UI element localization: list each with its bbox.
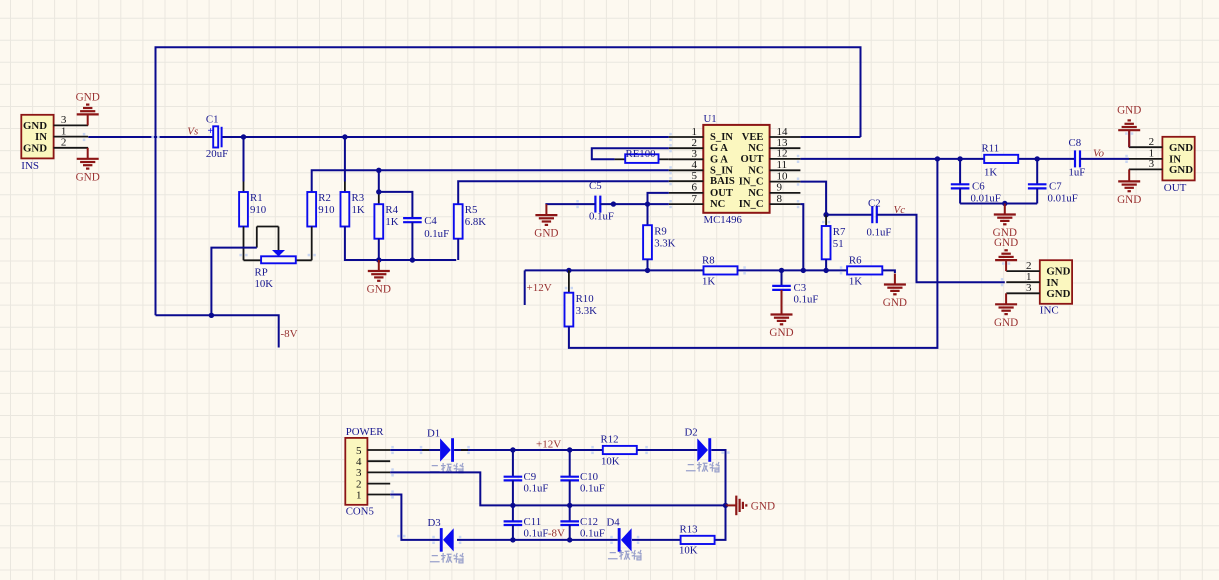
svg-text:OUT: OUT [741,154,764,165]
svg-text:GND: GND [534,228,558,240]
pin 7 NC [669,203,704,205]
wire C2 line [826,214,872,216]
svg-text:1K: 1K [352,204,365,216]
connector INS [21,115,53,159]
resistor R3 [341,192,350,227]
wire +12V bus [525,269,704,271]
label D3 type [430,553,464,563]
ground above INC pin2 [1005,260,1007,271]
pin 12 OUT [770,158,801,160]
junction out-feedback [935,156,940,161]
junction out-C7 [1035,156,1040,161]
svg-text:0.1uF: 0.1uF [867,227,892,239]
resistor R7 [825,215,827,226]
resistor RE100 [625,154,658,163]
svg-text:1: 1 [61,125,67,137]
svg-text:C5: C5 [589,180,602,192]
svg-text:GND: GND [751,501,775,513]
pin 11 NC [770,169,801,171]
svg-text:0.1uF: 0.1uF [589,211,614,223]
junction out-C6 [957,156,962,161]
wire pin8 column [800,204,803,270]
svg-text:GND: GND [1117,194,1141,206]
ground below INS pin2 [87,148,89,159]
svg-text:OUT: OUT [710,188,733,199]
pin 8 IN_C [770,203,801,205]
svg-text:6.8K: 6.8K [465,216,486,228]
svg-text:D4: D4 [607,517,621,529]
connector OUT [1162,137,1194,181]
diode D2 [697,438,708,461]
svg-text:C8: C8 [1069,137,1082,149]
ground at R6 [894,274,896,285]
wire -8V rail [390,495,440,540]
svg-text:1K: 1K [385,216,398,228]
svg-text:GND: GND [1169,164,1193,176]
wire -8V net [156,315,279,347]
svg-text:3: 3 [356,467,362,479]
svg-text:R5: R5 [465,204,478,216]
diode D3 [440,528,443,552]
svg-text:OUT: OUT [1164,182,1187,194]
wire pin10 to C2 [800,182,826,215]
diode D4 [618,528,621,552]
svg-text:7: 7 [692,193,698,205]
wire pin14 stub [800,136,860,138]
wire ground bus R3 R4 C4 R5 [345,227,456,261]
wire R3 branch [344,137,346,182]
resistor R12 [603,446,637,454]
resistor R8 [704,266,738,274]
svg-text:MC1496: MC1496 [704,214,743,226]
label D1 type [430,463,464,473]
power ground symbol [726,504,737,506]
svg-text:GND: GND [1117,105,1141,117]
wire pin6 branch [648,193,669,204]
svg-text:C12: C12 [580,516,598,528]
svg-text:0.1uF: 0.1uF [794,294,819,306]
capacitor C9 [512,450,514,477]
svg-text:S_IN: S_IN [710,165,733,176]
svg-text:C7: C7 [1049,181,1062,193]
capacitor C3 [781,270,783,286]
svg-text:VEE: VEE [742,132,764,143]
svg-text:R7: R7 [833,226,846,238]
wire C5 right to pin7 [600,203,669,205]
svg-text:11: 11 [777,159,788,171]
svg-text:-8V: -8V [548,528,565,540]
svg-text:10K: 10K [255,278,274,290]
svg-text:GND: GND [994,237,1018,249]
junction mid-C9 [510,503,515,508]
ground below resistor bank [378,260,380,271]
junction rail-C10 [567,447,572,452]
wire C4 branch [379,192,413,218]
pin 3 G A [669,158,704,160]
svg-text:C4: C4 [424,215,437,227]
pin 6 OUT [669,192,704,194]
pin 4 S_IN [669,169,704,171]
wire RP network [243,227,245,261]
wire GND mid rail [390,472,725,505]
svg-text:INC: INC [1040,305,1059,317]
svg-text:D2: D2 [685,427,698,439]
svg-text:C9: C9 [524,471,537,483]
svg-text:8: 8 [777,193,783,205]
wire VEE loop (pin14 to -8V node) [156,47,861,315]
pin 10 IN_C [770,181,801,183]
ground above INS pin3 [87,114,89,125]
wire C5 left to ground [546,203,595,206]
svg-text:1K: 1K [702,276,715,288]
junction main-R3 [342,134,347,139]
wire OUT net pin12 [800,158,984,160]
junction rail-R4 [376,168,381,173]
svg-text:GND: GND [367,284,391,296]
resistor R11 [984,155,1018,163]
junction bus-R7 [823,268,828,273]
svg-text:6: 6 [692,182,698,194]
svg-text:C3: C3 [794,282,807,294]
pin 1 CON5 [367,494,390,496]
resistor R6 [847,266,882,274]
resistor R4 [374,204,383,239]
svg-text:1K: 1K [849,276,862,288]
wire gain rail to pin4 [312,170,669,192]
junction bus-R10 [566,268,571,273]
wire R4 branch [378,170,380,193]
svg-text:910: 910 [318,204,334,216]
svg-text:910: 910 [250,204,266,216]
svg-text:0.1uF: 0.1uF [524,528,549,540]
svg-text:-8V: -8V [281,328,298,340]
svg-text:0.01uF: 0.01uF [1048,193,1078,205]
pin 2 G A [669,147,704,149]
resistor R9 [643,225,652,259]
svg-text:9: 9 [777,182,783,194]
wire C8 to OUT connector [1080,158,1129,160]
op-amp U1 MC1496 [703,125,769,213]
svg-text:RE100: RE100 [626,148,656,160]
junction bus-C4 [410,257,415,262]
ground above OUT pin2 [1128,131,1130,147]
resistor R10 [568,270,570,292]
svg-text:INS: INS [21,160,39,172]
pin 9 NC [770,192,801,194]
svg-text:Vo: Vo [1093,148,1105,160]
svg-text:D3: D3 [428,517,441,529]
junction bus-C3 [779,268,784,273]
svg-text:10K: 10K [679,545,698,557]
junction low-C12 [567,537,572,542]
capacitor C2 [871,206,873,223]
svg-text:20uF: 20uF [206,148,228,160]
ground at C5 [545,204,547,215]
svg-text:10K: 10K [601,456,620,468]
resistor R5 [454,204,463,239]
svg-text:1K: 1K [984,167,997,179]
svg-text:3: 3 [61,114,67,126]
svg-text:NC: NC [748,143,763,154]
svg-text:R3: R3 [352,192,365,204]
svg-text:+12V: +12V [536,439,561,451]
label D2 type [686,462,720,472]
junction low-C11 [510,537,515,542]
svg-text:GND: GND [23,142,47,154]
ground below C6 C7 [1004,204,1006,215]
svg-text:CON5: CON5 [346,506,374,518]
resistor R2 [307,192,316,227]
potentiometer RP [261,256,296,263]
pin 3 CON5 [367,471,390,473]
svg-text:R12: R12 [601,434,619,446]
svg-text:0.1uF: 0.1uF [580,528,605,540]
svg-text:51: 51 [833,238,844,250]
junction C5 line b [645,201,650,206]
svg-text:12: 12 [777,148,788,160]
capacitor C4 [403,217,422,219]
svg-text:3: 3 [1026,282,1032,294]
svg-text:1: 1 [356,489,362,501]
svg-text:2: 2 [61,137,67,149]
svg-text:IN_C: IN_C [739,199,764,210]
junction mid-right [723,503,728,508]
svg-text:1: 1 [692,126,698,138]
pin 1 S_IN [669,136,704,138]
junction C1-R1 [241,134,246,139]
pin 2 CON5 [367,483,390,485]
svg-text:GND: GND [76,91,100,103]
svg-text:C10: C10 [580,471,598,483]
svg-text:G A: G A [710,154,728,165]
svg-text:+12V: +12V [527,282,552,294]
svg-text:R6: R6 [849,255,862,267]
capacitor C1 [213,126,218,147]
svg-text:C11: C11 [524,516,542,528]
wire +12V stub [524,270,526,305]
svg-text:GND: GND [769,327,793,339]
junction rail-C9 [510,447,515,452]
ground below INC pin3 [1005,293,1007,304]
svg-text:C2: C2 [868,198,881,210]
svg-text:GND: GND [23,120,47,132]
svg-text:R10: R10 [576,293,594,305]
svg-text:G A: G A [710,143,728,154]
ground below OUT pin3 [1128,169,1130,181]
svg-text:NC: NC [748,188,763,199]
svg-text:RP: RP [255,267,268,279]
svg-text:3.3K: 3.3K [654,238,675,250]
connector CON5 POWER [345,438,367,505]
svg-text:0.1uF: 0.1uF [424,228,449,240]
capacitor C5 [594,196,596,213]
svg-text:R8: R8 [702,255,715,267]
svg-text:14: 14 [777,126,789,138]
wire R5 to pin5 rail [458,181,669,204]
junction C5 line a [611,201,616,206]
svg-text:C6: C6 [972,181,985,193]
diode D1 [440,438,451,461]
svg-text:2: 2 [1149,136,1155,148]
resistor R1 [239,192,248,227]
svg-text:Vs: Vs [187,125,198,137]
svg-text:GND: GND [994,317,1018,329]
capacitor C12 [569,505,571,521]
svg-text:0.1uF: 0.1uF [580,483,605,495]
svg-text:R11: R11 [982,143,1000,155]
junction bus-pin8 [801,268,806,273]
svg-text:5: 5 [356,445,362,457]
pin 13 NC [770,147,801,149]
resistor R13 [681,536,715,544]
svg-text:R9: R9 [654,226,667,238]
svg-text:IN: IN [35,131,47,143]
junction bus-R9 [645,268,650,273]
svg-text:R1: R1 [250,192,263,204]
svg-text:3.3K: 3.3K [576,305,597,317]
wire R9 branch [647,204,649,225]
svg-text:GND: GND [883,297,907,309]
svg-text:GND: GND [76,171,100,183]
wire R1 branch [243,137,245,182]
svg-text:R13: R13 [680,524,698,536]
svg-text:3: 3 [1149,158,1155,170]
svg-text:10: 10 [777,170,789,182]
junction bus-R4 [376,257,381,262]
ground below C3 [781,290,783,304]
capacitor C6 [959,159,961,184]
svg-text:GND: GND [1169,142,1193,154]
svg-text:R2: R2 [318,192,331,204]
svg-text:NC: NC [710,199,725,210]
svg-text:D1: D1 [427,428,440,440]
wire pin2-pin3 link [592,148,669,159]
junction R7-C2 [823,212,828,217]
wire R10 to feedback line [569,159,938,348]
capacitor C11 [512,505,514,521]
svg-text:U1: U1 [704,113,717,125]
pin 5 BAIS [669,180,704,182]
svg-text:R4: R4 [385,204,398,216]
junction mid-C10 [567,503,572,508]
junction -8V node [209,313,214,318]
pin 14 VEE [770,136,801,138]
wire +12V rail [390,449,440,451]
svg-text:C1: C1 [206,113,219,125]
svg-text:5: 5 [692,170,698,182]
capacitor C10 [569,450,571,477]
svg-text:1uF: 1uF [1069,167,1086,179]
pin 5 CON5 [367,449,390,451]
svg-text:+: + [207,126,213,137]
svg-text:BAIS: BAIS [710,176,735,187]
svg-text:4: 4 [356,456,362,468]
svg-text:0.1uF: 0.1uF [524,483,549,495]
wire Vc to INC pin1 [877,215,1005,283]
connector INC [1040,260,1072,304]
junction gnd link [1002,201,1007,206]
svg-text:GND: GND [1046,288,1070,300]
wire C6-C7 ground link [959,188,961,203]
capacitor C7 [1036,159,1038,184]
wire main signal Vs line [88,136,213,138]
junction R4-C4 branch [376,189,381,194]
svg-text:IN_C: IN_C [739,177,764,188]
pin 4 CON5 [367,460,390,462]
svg-text:S_IN: S_IN [710,132,733,143]
wire R9 to bus [647,259,649,270]
label D4 type [608,550,642,560]
wire wiper to -8V node [211,248,256,316]
capacitor C8 [1074,150,1076,167]
svg-text:NC: NC [748,165,763,176]
svg-text:POWER: POWER [346,426,385,438]
